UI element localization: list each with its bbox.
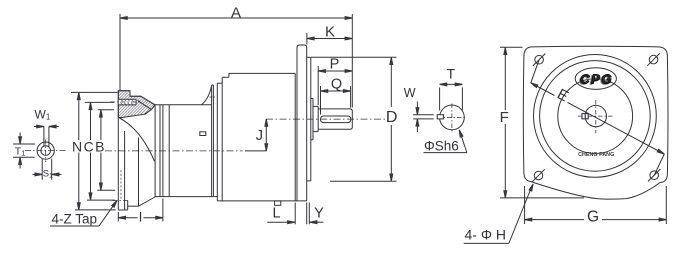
gearbox bell mouth curve <box>120 118 155 161</box>
wire: dimension A extension lines <box>120 14 352 108</box>
adapter ring <box>217 73 229 200</box>
svg-text:K: K <box>325 23 335 40</box>
svg-text:C: C <box>84 138 94 154</box>
svg-text:G: G <box>587 208 599 225</box>
dimension F (left vertical) <box>500 47 584 198</box>
svg-text:P: P <box>330 56 340 72</box>
input flange hatched section (top, cut view) <box>118 91 155 118</box>
corner hole bottom-left <box>532 169 544 181</box>
inner rim circle <box>540 61 651 172</box>
gearbox cylinder housing <box>155 105 217 197</box>
svg-text:Y: Y <box>314 206 324 222</box>
motor adapter flare <box>202 85 217 197</box>
drain plug at bottom <box>275 201 281 205</box>
label 4-PhiH with leader <box>464 183 535 243</box>
dimension T (shaft diameter) <box>440 65 463 110</box>
svg-text:I: I <box>139 209 143 224</box>
bore keyway <box>582 114 588 119</box>
svg-text:Q: Q <box>331 77 342 93</box>
flange bore lines <box>121 131 125 210</box>
dimension B <box>95 110 115 190</box>
gearbox cone bottom edge <box>139 197 156 207</box>
dimension G (bottom horizontal) <box>525 186 667 225</box>
dimension Q (keyway length) <box>321 77 351 115</box>
dimension W (key width) <box>404 86 434 132</box>
output flange plate <box>297 45 307 201</box>
svg-text:W: W <box>404 86 416 100</box>
svg-text:4-Z Tap: 4-Z Tap <box>52 212 98 227</box>
input axis centerline (main) <box>105 150 243 152</box>
square flange outline <box>523 46 668 199</box>
shaft collar <box>313 106 318 131</box>
svg-text:B: B <box>95 138 104 154</box>
svg-text:T: T <box>447 65 456 81</box>
small tab on gearbox <box>200 132 206 136</box>
corner hole bottom-right <box>648 169 660 181</box>
svg-text:A: A <box>231 4 241 21</box>
CHENG PANG text <box>578 152 614 158</box>
center crosshair <box>578 100 614 133</box>
key cross-section <box>437 115 443 119</box>
dimension N <box>71 92 118 209</box>
shaft keyway slot <box>321 116 351 123</box>
output axis centerline <box>266 118 385 120</box>
motor body outline <box>217 73 307 200</box>
dimension S1 (bore width across) <box>33 159 62 180</box>
dimension E (diagonal) <box>530 60 665 176</box>
outer rim circle <box>534 55 657 178</box>
bottom tap hole centerline <box>113 138 139 207</box>
dimension C <box>84 102 115 200</box>
svg-text:T1: T1 <box>15 146 26 158</box>
tap hole channel (4-Z Tap, sectioned) <box>110 99 141 105</box>
dimension T1 (depth) <box>13 133 35 169</box>
output flange ring <box>307 57 311 181</box>
dimension D (flange diameter, right vertical) <box>311 57 397 181</box>
dimension W1 (keyway width) <box>34 108 59 147</box>
dimension K <box>307 23 352 44</box>
svg-text:CHENG PANG: CHENG PANG <box>578 152 614 158</box>
detail crosshair <box>437 104 467 134</box>
dimension P (shaft length) <box>318 56 352 105</box>
svg-text:W1: W1 <box>35 108 51 122</box>
corner hole top-right <box>647 53 659 65</box>
input flange left face <box>118 91 127 211</box>
svg-text:F: F <box>500 109 509 126</box>
input shaft section detail (left): hub circle <box>37 142 54 159</box>
svg-text:D: D <box>386 109 398 126</box>
input shaft end detail (circle with key) <box>440 105 465 130</box>
dimension L <box>267 203 295 225</box>
svg-text:CPG: CPG <box>580 71 613 86</box>
center boss circle <box>558 79 633 154</box>
centerline of input axis (left piece through detail) <box>25 140 67 163</box>
svg-text:4- Φ H: 4- Φ H <box>465 226 507 242</box>
CPG logo <box>575 68 616 90</box>
output boss <box>311 98 313 139</box>
svg-text:ΦSh6: ΦSh6 <box>424 139 459 154</box>
dimension A (overall length, top) <box>120 4 352 21</box>
label 4-Z Tap with leader <box>50 200 118 227</box>
output shaft <box>318 109 352 129</box>
svg-text:J: J <box>256 128 263 144</box>
dimension Y <box>307 203 324 225</box>
dimension J (axis offset) <box>245 119 268 151</box>
svg-text:N: N <box>72 138 82 154</box>
label PhiSh6 with leader <box>424 129 467 153</box>
shaft bore circle <box>585 105 606 126</box>
dimension I <box>118 199 163 225</box>
corner hole top-left <box>533 54 545 66</box>
svg-text:L: L <box>272 205 280 221</box>
